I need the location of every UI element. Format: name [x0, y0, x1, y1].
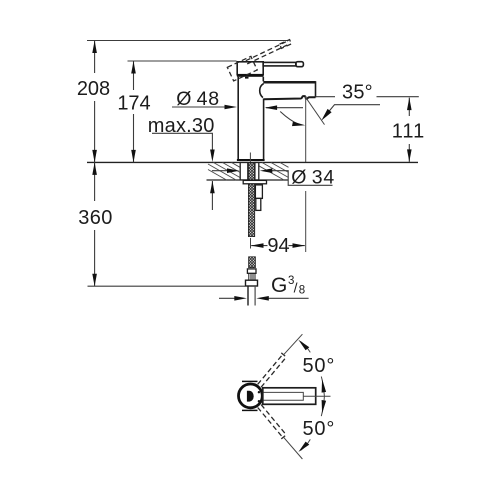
supply nipple lower — [256, 198, 261, 210]
dashed lever up position — [258, 353, 286, 387]
top view lever slot — [264, 392, 304, 400]
35 deg baseline right — [377, 96, 419, 98]
leader Ø48 right arrow — [265, 105, 303, 110]
leader max.30 lower arrow — [210, 181, 215, 210]
hose collar — [247, 269, 256, 273]
leader Ø48 left arrow — [172, 105, 237, 110]
svg-text:50°: 50° — [303, 418, 336, 440]
label G 3/8 — [271, 274, 305, 297]
G3/8 right arrow — [256, 296, 308, 301]
angle line minus50 — [283, 437, 302, 459]
locknut — [243, 180, 266, 183]
arc arrow lower outer — [298, 439, 310, 452]
cartridge housing — [237, 62, 263, 75]
dimension 174 line — [131, 61, 136, 162]
countertop bottom line — [207, 179, 289, 181]
svg-text:360: 360 — [78, 207, 113, 229]
top view pin upper — [258, 391, 260, 393]
faucet body left edge — [237, 77, 239, 159]
spout body fillet — [260, 84, 264, 98]
leader 35 deg arrow — [321, 105, 380, 121]
spout top edge — [263, 81, 315, 84]
faucet body right edge lower — [263, 99, 265, 160]
counter hatch left — [208, 163, 240, 181]
G3/8 left arrow — [219, 296, 247, 301]
Ø34 left arrow — [212, 168, 240, 173]
top view cartridge slot — [247, 391, 254, 402]
flow arc arrow — [280, 112, 305, 127]
extension line bottom (360) — [88, 285, 246, 287]
35 deg baseline left — [316, 96, 335, 98]
lever bar — [263, 62, 296, 66]
hose crimp ribs — [249, 273, 255, 280]
arc arrow upper inner — [321, 377, 326, 397]
spout right edge — [315, 81, 317, 97]
cartridge bottom band — [237, 74, 264, 77]
raised lever dashed bottom line — [247, 45, 287, 64]
braided hose lower — [249, 257, 256, 268]
top view circle top flat — [242, 380, 258, 382]
dashed lever down position — [258, 405, 286, 439]
top view pin lower — [258, 400, 260, 402]
arc arrow upper outer — [298, 340, 310, 353]
aerator extension line lower — [305, 191, 307, 252]
spray angle line — [306, 98, 325, 125]
mounting shank left — [240, 163, 248, 180]
extension line top (208) — [87, 40, 288, 42]
svg-text:208: 208 — [77, 78, 110, 100]
svg-text:35°: 35° — [342, 82, 373, 104]
dimension 94 line — [251, 238, 306, 249]
spout bottom edge with aerator notch — [264, 96, 316, 99]
raised lever tip cap — [280, 40, 292, 49]
counter hatch right — [259, 163, 289, 181]
leader Ø34 — [260, 168, 333, 185]
braided hose upper — [248, 162, 254, 236]
svg-text:174: 174 — [117, 92, 150, 114]
base centerline — [249, 153, 251, 163]
faucet body right edge upper — [262, 77, 264, 82]
raised lever dashed top line — [246, 42, 286, 61]
top view centerline — [304, 395, 331, 397]
connection pipe — [248, 286, 255, 306]
top view body circle — [239, 384, 263, 408]
aerator extension line upper — [305, 96, 307, 162]
dimension 360 line — [92, 162, 97, 286]
top view lever outline — [263, 388, 316, 405]
svg-text:/: / — [294, 280, 298, 296]
raised cartridge dashed — [227, 56, 257, 81]
lever knob tip — [296, 62, 304, 67]
svg-text:111: 111 — [392, 121, 425, 143]
arc arrow lower inner — [321, 396, 326, 416]
leader max.30 upper arrow — [152, 133, 215, 162]
svg-text:8: 8 — [299, 285, 305, 297]
svg-text:G: G — [271, 274, 287, 297]
top view circle bottom flat — [242, 409, 258, 411]
supply nipple upper — [255, 185, 262, 199]
cartridge tab — [245, 77, 249, 79]
dimension 208 line — [92, 41, 97, 163]
extension line 174 — [128, 60, 237, 62]
svg-text:50°: 50° — [303, 355, 336, 377]
connector nut G3/8 — [246, 280, 258, 286]
svg-text:94: 94 — [267, 235, 289, 257]
dimension 111 line — [407, 98, 412, 162]
base plate bar — [237, 159, 265, 161]
mounting shank right — [255, 163, 259, 180]
angle line plus50 — [283, 334, 302, 355]
countertop top line — [87, 161, 418, 163]
